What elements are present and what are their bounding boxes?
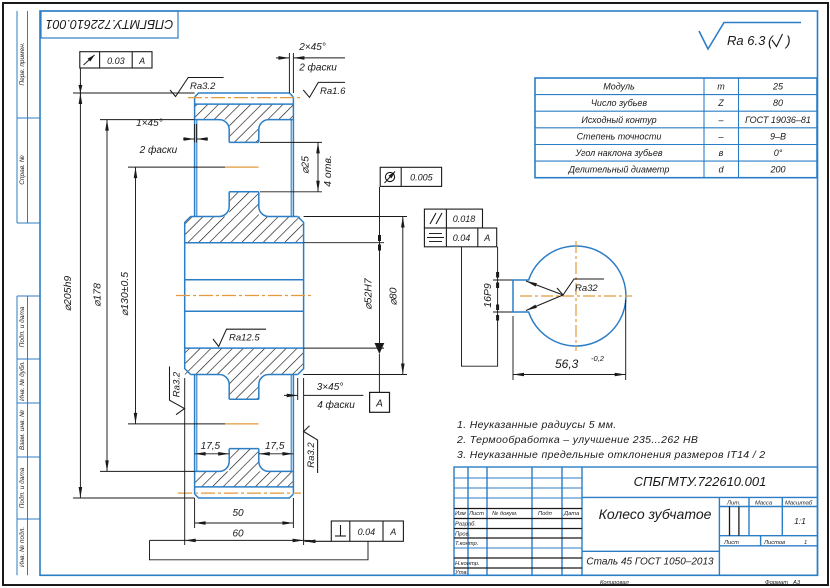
left margin strip group 1 <box>17 11 40 223</box>
detail centerlines <box>520 241 632 351</box>
svg-text:Разраб.: Разраб. <box>455 522 476 528</box>
gear outline blue <box>185 93 304 498</box>
svg-text:0.04: 0.04 <box>453 233 471 243</box>
16P9 ext lines <box>493 280 513 312</box>
runout frame 0.005 <box>380 167 441 186</box>
svg-text:200: 200 <box>769 165 785 175</box>
17,5 dim left <box>195 453 230 455</box>
svg-text:Подп. и дата: Подп. и дата <box>18 467 26 508</box>
svg-text:25: 25 <box>772 82 784 92</box>
rim right face <box>292 97 294 217</box>
hole centerline bottom <box>225 423 259 425</box>
svg-text:3×45°: 3×45° <box>317 382 344 393</box>
recess top-left profile <box>191 120 230 217</box>
dim line 50 <box>195 522 294 524</box>
3x45 hub chamfer dim <box>284 378 363 400</box>
svg-text:0.03: 0.03 <box>107 56 125 66</box>
svg-text:А: А <box>375 399 383 410</box>
hatch hub bottom band <box>185 348 304 374</box>
hatch web top lower <box>229 192 259 217</box>
rim right face bottom <box>292 375 294 495</box>
svg-text:Ra3.2: Ra3.2 <box>190 81 216 92</box>
recess bottom-right profile <box>259 375 298 472</box>
dim line d205h9 <box>79 68 81 498</box>
svg-text:Взам. инв. №: Взам. инв. № <box>19 410 26 450</box>
perpendicularity frame <box>305 521 404 541</box>
hatch rim top band <box>195 104 294 120</box>
hatch web bottom lower <box>229 449 259 472</box>
svg-text:80: 80 <box>773 98 783 108</box>
56,3 dimension <box>513 300 626 380</box>
svg-text:Масштаб: Масштаб <box>785 501 813 507</box>
svg-text:Изм: Изм <box>455 511 466 517</box>
svg-text:А: А <box>389 527 396 537</box>
svg-text:Z: Z <box>717 98 724 108</box>
svg-text:Сталь 45 ГОСТ 1050–2013: Сталь 45 ГОСТ 1050–2013 <box>586 557 714 568</box>
svg-text:Т.контр.: Т.контр. <box>455 541 478 547</box>
svg-text:Подп. и дата: Подп. и дата <box>18 306 26 347</box>
top-left designation box <box>41 11 178 38</box>
Ra3.2 right rotated <box>304 426 318 473</box>
svg-text:Степень точности: Степень точности <box>577 132 662 142</box>
svg-text:СПБГМТУ.722610.001: СПБГМТУ.722610.001 <box>634 474 767 489</box>
runout tolerance frame top left <box>80 52 152 68</box>
recess bottom-left profile <box>191 375 230 472</box>
svg-text:Листов: Листов <box>763 540 785 546</box>
svg-text:Инв. № дубл.: Инв. № дубл. <box>18 361 26 401</box>
ext lines hole d25 <box>260 141 322 143</box>
svg-text:4 отв.: 4 отв. <box>322 155 334 187</box>
svg-text:Ra3.2: Ra3.2 <box>306 442 317 468</box>
svg-text:СПБГМТУ.722610.001: СПБГМТУ.722610.001 <box>46 17 174 31</box>
svg-text:Лит.: Лит. <box>726 501 741 507</box>
pitch line bottom <box>178 492 301 494</box>
rim left face <box>194 97 196 217</box>
svg-text:А: А <box>138 56 145 66</box>
svg-text:2. Термообработка – улучшение: 2. Термообработка – улучшение 235...262 … <box>456 434 698 446</box>
svg-text:Подп: Подп <box>538 511 553 517</box>
dim line d25 <box>317 142 319 191</box>
hatch web top upper <box>229 120 259 143</box>
svg-text:2 фаски: 2 фаски <box>298 62 337 74</box>
2x45 dim arrows <box>276 57 289 59</box>
svg-text:16P9: 16P9 <box>482 283 494 308</box>
svg-text:17,5: 17,5 <box>265 441 285 452</box>
1x45 dim arrows <box>183 138 195 140</box>
keyway wall lower <box>185 310 304 312</box>
ext lines 60 <box>184 378 186 545</box>
svg-text:Дата: Дата <box>563 511 580 517</box>
dim line d80 <box>402 217 404 375</box>
general roughness Ra6.3 top right <box>699 23 801 50</box>
gear axis <box>176 295 312 297</box>
ext line bore bottom <box>304 347 384 349</box>
svg-text:Ra1.6: Ra1.6 <box>320 86 346 97</box>
svg-text:Лист: Лист <box>723 540 739 546</box>
ext line tip top <box>73 92 195 94</box>
svg-text:Масса: Масса <box>755 501 773 507</box>
svg-text:Формат: Формат <box>765 580 788 586</box>
svg-text:№ докум.: № докум. <box>492 511 518 517</box>
ext line hub bottom <box>304 374 407 376</box>
svg-text:⌀178: ⌀178 <box>91 283 103 307</box>
recess top-right profile <box>259 120 298 217</box>
svg-text:Копировал: Копировал <box>600 580 630 586</box>
Ra32 callout in detail <box>557 279 604 295</box>
lightening hole top edges <box>229 141 259 143</box>
dim line d178 <box>106 120 108 472</box>
svg-text:Справ. №: Справ. № <box>19 155 26 185</box>
pocket opening edge lines top <box>196 120 198 217</box>
svg-text:в: в <box>719 148 724 158</box>
svg-text:4 фаски: 4 фаски <box>317 399 355 411</box>
tooth tip bottom edge with chamfers <box>195 494 294 498</box>
svg-text:–: – <box>717 115 724 125</box>
svg-text:-0,2: -0,2 <box>591 354 605 363</box>
svg-text:ГОСТ 19036–81: ГОСТ 19036–81 <box>745 115 811 125</box>
hole centerline top <box>225 166 259 168</box>
svg-text:9–В: 9–В <box>770 132 786 142</box>
centerlines orange <box>176 98 312 494</box>
ext line tip bottom <box>73 497 195 499</box>
svg-text:2×45°: 2×45° <box>298 42 326 53</box>
hatch hub top band <box>185 217 304 243</box>
2x45 ext lines <box>288 53 290 93</box>
svg-text:60: 60 <box>232 529 244 540</box>
tooth root line top <box>195 103 294 105</box>
bore bottom edge <box>185 347 304 349</box>
svg-text:Ra12.5: Ra12.5 <box>229 333 260 344</box>
hatch web bottom upper <box>229 375 259 400</box>
svg-text:3. Неуказанные предельные откл: 3. Неуказанные предельные отклонения раз… <box>457 449 765 461</box>
svg-text:17,5: 17,5 <box>201 441 221 452</box>
svg-text:Лист: Лист <box>468 511 484 517</box>
1x45 ext lines <box>194 124 196 143</box>
Ra12.5 at bore <box>213 329 266 346</box>
bore top edge <box>185 242 304 244</box>
svg-text:Число зубьев: Число зубьев <box>591 98 648 108</box>
svg-text:–: – <box>717 132 724 142</box>
technical notes <box>456 419 765 461</box>
arrows from vertex to keyway corners <box>526 281 563 311</box>
dim line d52H7 with leader to frame <box>379 187 381 348</box>
svg-text:Ra32: Ra32 <box>575 283 598 294</box>
svg-text:Ra 6.3: Ra 6.3 <box>727 33 766 48</box>
svg-text:Пров.: Пров. <box>455 532 470 538</box>
17,5 dim right <box>259 453 294 455</box>
svg-text:Инв. № подл.: Инв. № подл. <box>18 527 26 568</box>
hatch rim bottom band <box>195 471 294 487</box>
hub left face with chamfers <box>185 217 191 375</box>
svg-text:А: А <box>483 233 490 243</box>
pitch line top <box>188 97 300 99</box>
Ra3.2 left rotated <box>170 367 185 415</box>
lightening hole bottom edges <box>229 398 259 400</box>
dim line 60 with left extension to bracket <box>185 539 304 541</box>
svg-text:1: 1 <box>804 540 807 546</box>
svg-text:Перв. примен.: Перв. примен. <box>19 42 26 85</box>
16P9 ticks <box>496 272 499 321</box>
svg-text:⌀130±0.5: ⌀130±0.5 <box>119 272 131 316</box>
U leader from frames to 16P9 dim <box>462 247 498 366</box>
svg-text:Исходный контур: Исходный контур <box>581 115 656 125</box>
keyway wall upper <box>185 279 304 281</box>
svg-text:56,3: 56,3 <box>555 357 579 371</box>
pocket opening edge lines bottom <box>196 375 198 472</box>
Ra1.6 top right <box>303 82 345 97</box>
svg-text:⌀205h9: ⌀205h9 <box>62 276 74 312</box>
svg-text:Утв.: Утв. <box>454 570 468 576</box>
svg-text:Делительный диаметр: Делительный диаметр <box>568 165 670 175</box>
dim line d130 <box>135 167 137 424</box>
ext line bore top <box>304 242 384 244</box>
svg-text:⌀25: ⌀25 <box>299 156 311 174</box>
svg-text:Модуль: Модуль <box>603 82 635 92</box>
Ra3.2 top left <box>170 78 224 97</box>
svg-text:1. Неуказанные радиусы 5 мм.: 1. Неуказанные радиусы 5 мм. <box>457 419 617 431</box>
ext line rim ID top <box>100 119 195 121</box>
svg-text:⌀80: ⌀80 <box>387 287 399 305</box>
svg-text:Ra3.2: Ra3.2 <box>172 371 183 397</box>
hub right face with chamfers <box>298 217 304 375</box>
svg-text:0°: 0° <box>774 148 783 158</box>
ext line rim ID bottom <box>100 470 195 472</box>
datum A triangle and box <box>375 343 385 354</box>
svg-text:⌀52H7: ⌀52H7 <box>362 277 374 310</box>
rim left face bottom <box>194 375 196 495</box>
ext lines 50 <box>194 498 196 528</box>
ext line hole circle top <box>128 166 225 168</box>
svg-text:Н.контр.: Н.контр. <box>455 561 480 567</box>
TITLE BLOCK <box>454 467 818 575</box>
svg-text:2 фаски: 2 фаски <box>139 144 178 156</box>
svg-text:50: 50 <box>232 508 244 519</box>
ticks on d52H7 at bore top <box>378 235 381 251</box>
left margin strip group 2 <box>17 296 40 575</box>
tooth tip top edge with chamfers <box>195 93 294 97</box>
svg-text:Угол наклона зубьев: Угол наклона зубьев <box>574 148 662 158</box>
svg-text:0.04: 0.04 <box>358 527 376 537</box>
gear parameters table <box>535 78 817 178</box>
detail circle with keyway <box>513 246 626 346</box>
left strip labels <box>18 42 26 567</box>
svg-text:А3: А3 <box>792 580 801 586</box>
svg-text:1×45°: 1×45° <box>136 118 163 129</box>
table row Модуль <box>568 82 811 175</box>
svg-text:1:1: 1:1 <box>794 516 806 526</box>
bracket polyline to perpendicularity frame <box>150 540 369 559</box>
ext line hub top <box>304 216 407 218</box>
svg-text:0.018: 0.018 <box>453 214 476 224</box>
svg-text:m: m <box>717 82 725 92</box>
svg-text:0.005: 0.005 <box>410 173 434 183</box>
tooth root line bottom <box>195 486 294 488</box>
ext line hole circle bottom <box>128 423 225 425</box>
svg-text:Колесо зубчатое: Колесо зубчатое <box>599 506 712 522</box>
